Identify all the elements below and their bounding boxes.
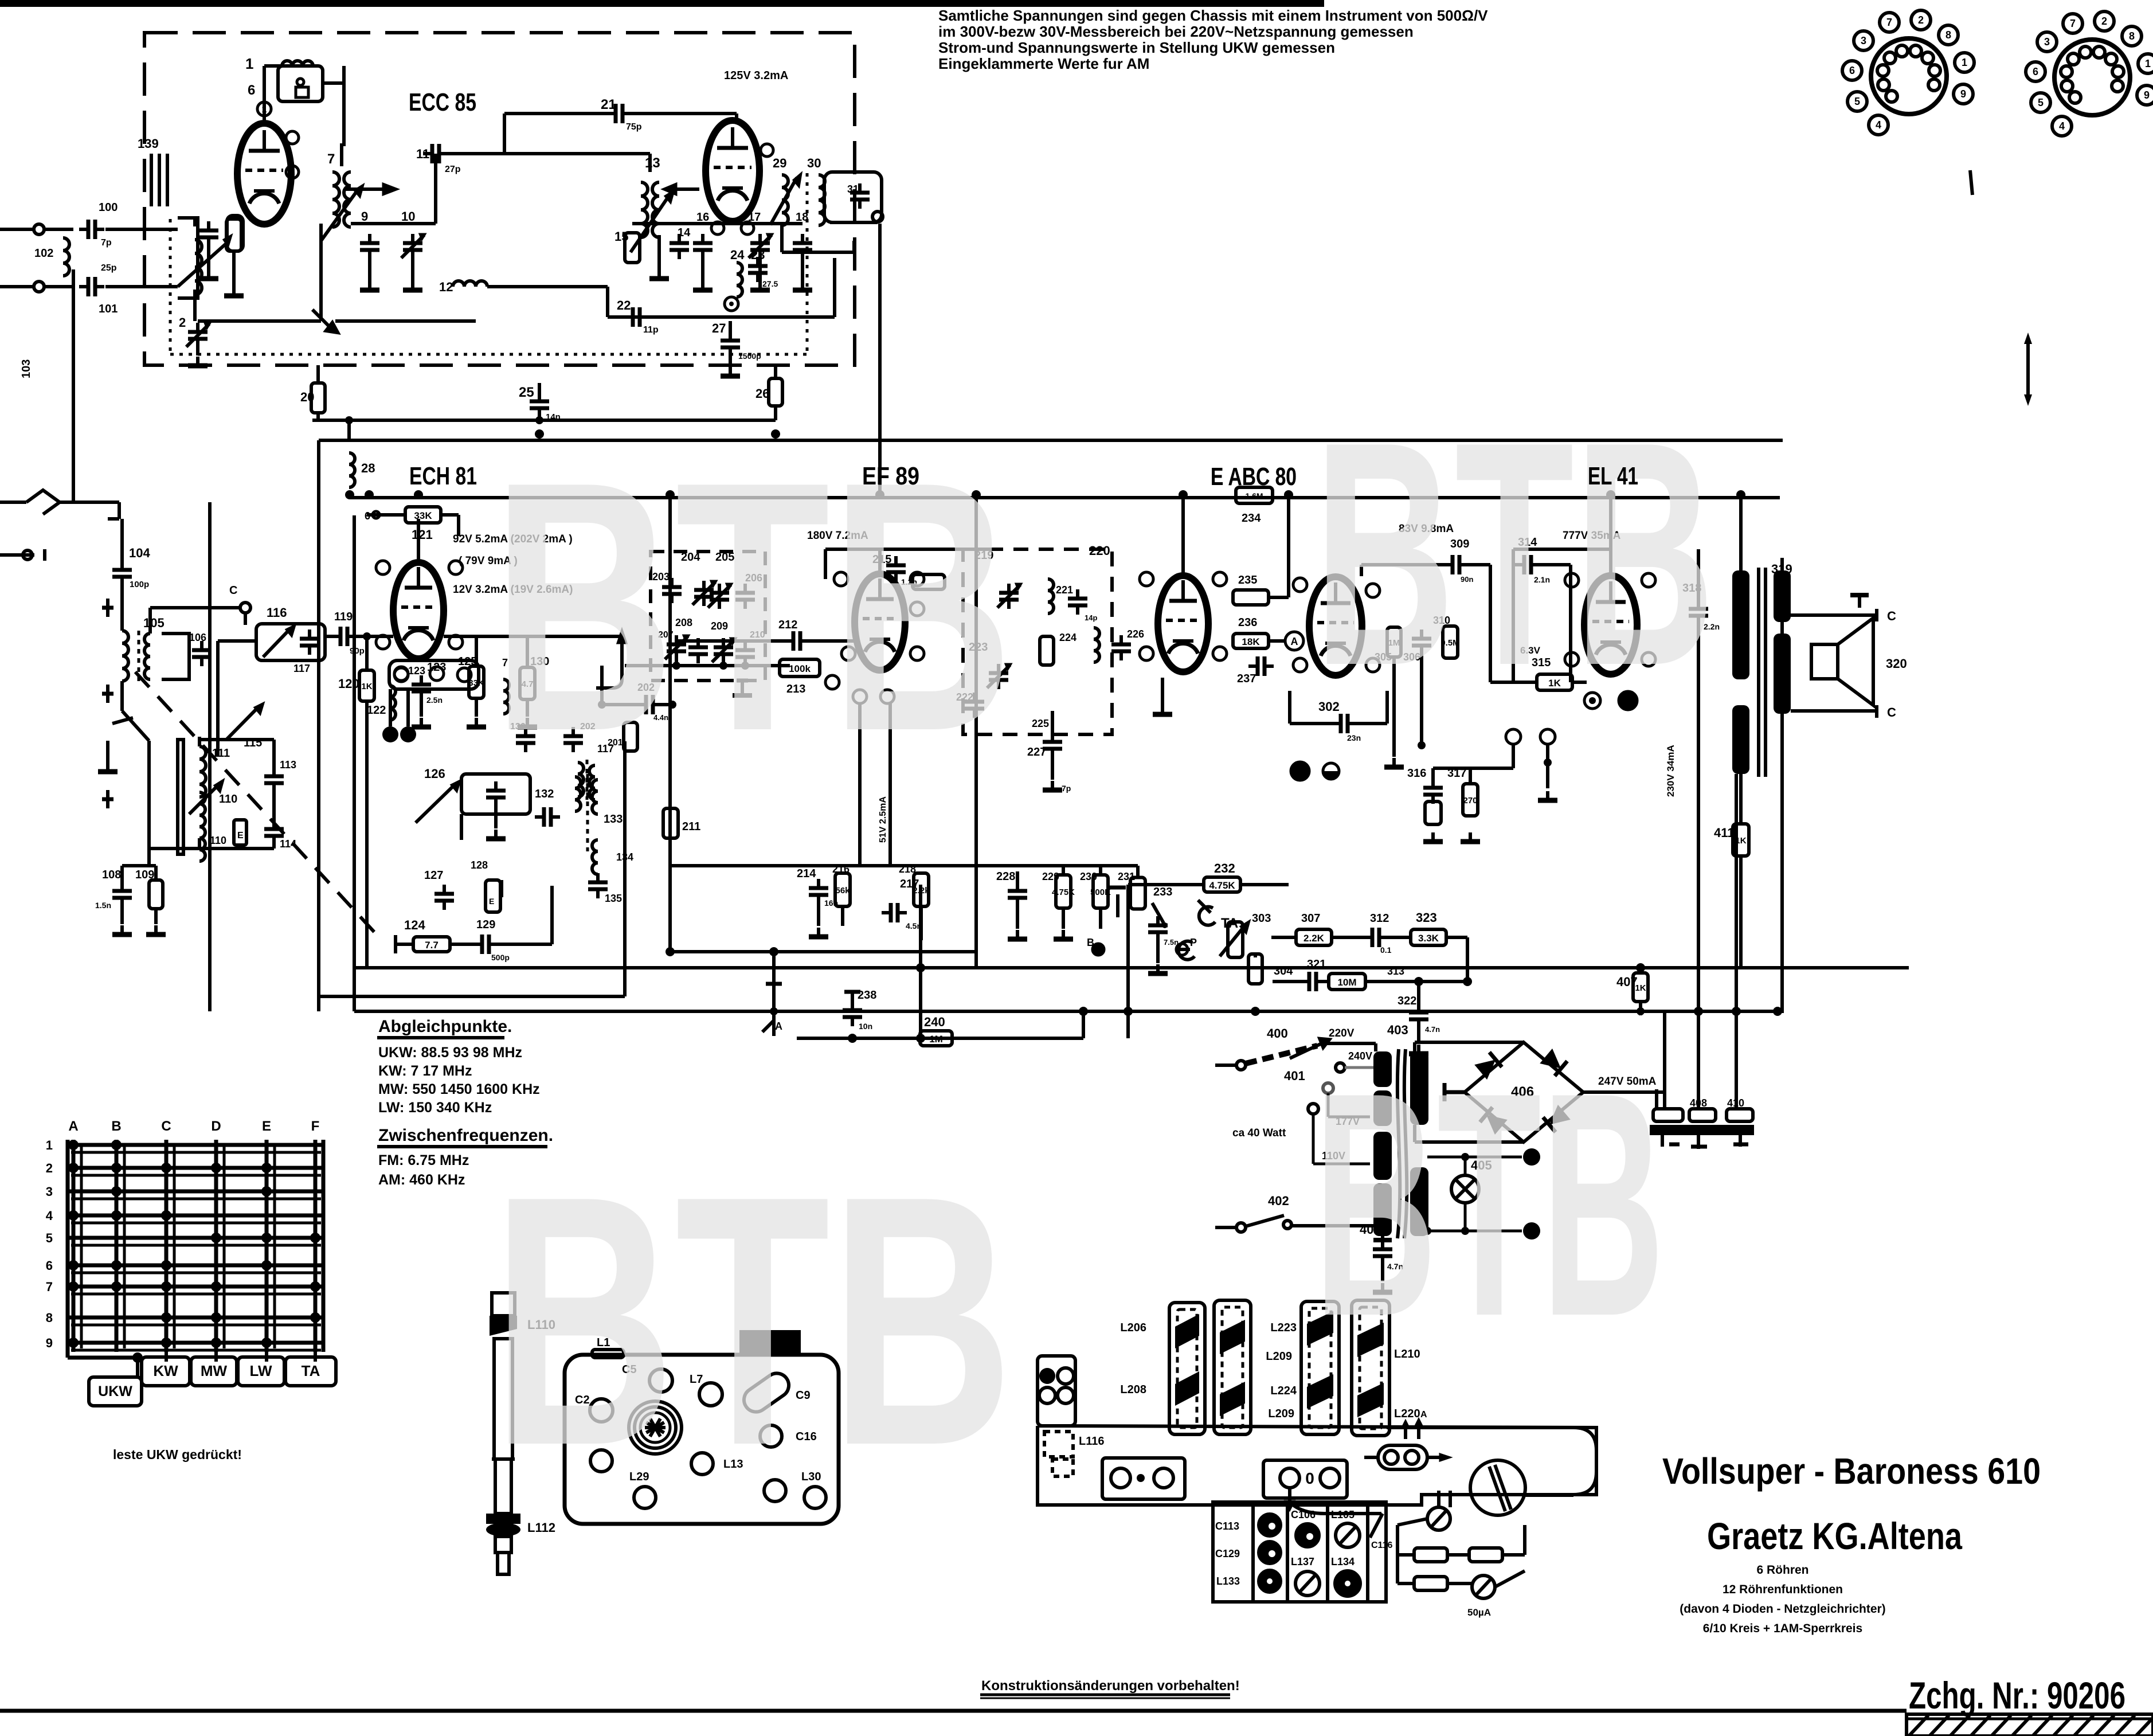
pins filled below 302 — [1291, 762, 1309, 780]
svg-text:6: 6 — [1849, 65, 1855, 76]
TA terminals — [1199, 907, 1215, 925]
svg-text:L209: L209 — [1268, 1407, 1294, 1420]
wire anode ECH81 — [417, 519, 420, 562]
wire — [1254, 954, 1257, 957]
svg-text:10M: 10M — [1337, 977, 1356, 988]
coil 29 — [782, 175, 788, 225]
wire — [1780, 622, 1784, 634]
capacitor 18 — [793, 234, 812, 259]
svg-text:7p: 7p — [1062, 784, 1071, 793]
wire — [1780, 558, 1784, 570]
wire — [457, 515, 460, 536]
svg-text:123: 123 — [408, 665, 425, 677]
svg-text:105: 105 — [143, 616, 165, 630]
svg-text:27.5: 27.5 — [762, 279, 778, 288]
wire — [1490, 681, 1536, 684]
capacitor 106 — [192, 641, 212, 666]
wire frame bottom — [319, 995, 625, 998]
cathode dots ECH81 — [382, 726, 398, 742]
connector two holes — [1378, 1445, 1427, 1469]
wire tap, — [1327, 1093, 1330, 1117]
svg-text:100p: 100p — [130, 580, 149, 589]
wire — [1364, 1456, 1378, 1459]
note text block — [938, 7, 1488, 72]
svg-text:L137: L137 — [1291, 1556, 1314, 1567]
wire — [118, 502, 121, 519]
coil 102 — [63, 238, 69, 276]
wire — [1062, 866, 1065, 875]
small box resistor 5 — [227, 216, 243, 251]
capacitor 228 — [1008, 882, 1027, 907]
svg-text:7: 7 — [46, 1280, 53, 1294]
ground 109 — [146, 925, 166, 935]
svg-text:11: 11 — [416, 147, 429, 161]
trimmer coil 110 — [189, 784, 219, 814]
wire — [44, 285, 73, 288]
wire frame vertical 1090 — [623, 741, 627, 996]
wire IF to EF89 — [676, 639, 751, 643]
bus junction dots — [365, 490, 374, 499]
resistor 230 — [1090, 875, 1111, 908]
svg-text:106: 106 — [189, 632, 206, 643]
bridge left lead — [1445, 1090, 1465, 1094]
wire — [629, 112, 737, 115]
svg-text:4: 4 — [2059, 120, 2065, 132]
svg-text:10n: 10n — [859, 1022, 872, 1031]
pins below EF89 — [853, 690, 867, 703]
svg-text:109: 109 — [135, 869, 154, 881]
pin EF89 e — [910, 647, 924, 660]
wire — [1392, 657, 1396, 757]
svg-text:240: 240 — [924, 1015, 945, 1029]
resistor 216 56k — [835, 873, 850, 906]
hole C2 — [590, 1399, 613, 1422]
terminal 124 — [394, 935, 397, 953]
coil 110b — [199, 827, 205, 861]
antenna terminal lower — [34, 281, 44, 292]
wire — [1269, 639, 1285, 643]
wire — [122, 864, 156, 867]
wire trafo to bus — [1739, 495, 1743, 549]
wire 323 right — [1466, 937, 1469, 982]
pin ECH81 e — [394, 667, 408, 681]
svg-text:234: 234 — [1242, 512, 1261, 525]
trimmer 207 — [665, 635, 689, 660]
capacitor 117 — [300, 630, 319, 655]
svg-text:12 Röhrenfunktionen: 12 Röhrenfunktionen — [1723, 1583, 1843, 1596]
capacitor 210 — [735, 641, 755, 666]
button KW — [142, 1357, 190, 1386]
pin b2 — [1366, 584, 1380, 597]
pin EL41 a — [1565, 573, 1579, 587]
svg-text:128: 128 — [471, 859, 488, 871]
svg-text:7: 7 — [327, 151, 335, 167]
wire to resistor 20 — [316, 365, 320, 383]
wire — [154, 866, 158, 880]
wire — [1413, 1042, 1416, 1051]
wire — [758, 259, 762, 281]
cap 318 — [1697, 596, 1700, 605]
wire — [1639, 968, 1642, 973]
tube socket diagram 2 — [2026, 11, 2153, 136]
hole C5 — [649, 1369, 672, 1392]
resistor 20 2.2k — [311, 383, 325, 413]
wire — [1513, 548, 1611, 551]
wire — [833, 258, 836, 317]
svg-text:C106: C106 — [1291, 1509, 1316, 1520]
svg-text:Samtliche Spannungen sind gege: Samtliche Spannungen sind gegen Chassis … — [938, 7, 1488, 24]
wire bottom cluster — [149, 847, 274, 850]
wire — [1420, 655, 1423, 745]
hole near L30 — [764, 1480, 786, 1502]
wire — [207, 247, 210, 269]
resistor 315 1K — [1537, 674, 1572, 690]
ground 17 — [750, 281, 770, 290]
connector leads — [1427, 1456, 1445, 1459]
wire — [154, 909, 158, 924]
ground 229 — [1054, 930, 1073, 939]
svg-text:ECC 85: ECC 85 — [409, 88, 476, 116]
tap 240V — [1336, 1063, 1345, 1072]
chassis main outline — [1038, 1426, 1596, 1505]
arrow indicator tube2 — [676, 187, 699, 191]
wire — [841, 906, 844, 926]
capacitor 9 — [360, 234, 379, 259]
svg-text:25: 25 — [519, 385, 534, 400]
trimmer capacitor 10 — [401, 234, 425, 259]
ground 125 — [467, 718, 486, 727]
resistor 231 — [1130, 878, 1145, 909]
pin EF89 b — [910, 572, 924, 586]
svg-text:C: C — [229, 584, 237, 597]
svg-text:211: 211 — [682, 820, 700, 833]
svg-text:9: 9 — [1960, 88, 1966, 100]
wire — [722, 663, 725, 666]
wire antenna down — [72, 269, 75, 502]
wire bus 1764 — [354, 1010, 1784, 1013]
wire — [1639, 1002, 1642, 1015]
tuning shaft star — [645, 1426, 666, 1429]
pin wire top — [263, 86, 266, 123]
resistor 125 33K — [468, 666, 484, 698]
svg-text:E: E — [237, 831, 244, 840]
switch arrow 400 — [1290, 1042, 1324, 1058]
wire — [475, 698, 478, 717]
tube EABC80 triode section — [1309, 577, 1362, 675]
ground 227 — [1043, 781, 1062, 790]
band switch matrix — [46, 1119, 323, 1377]
coil 117a — [578, 763, 584, 797]
wire tube2 output down — [878, 224, 882, 495]
resistor 120 1K — [359, 670, 374, 701]
wire x1350 — [772, 952, 776, 1036]
wire — [1464, 1203, 1467, 1231]
wire — [1739, 774, 1743, 824]
wire heater top — [1427, 1156, 1465, 1159]
wire — [120, 681, 124, 711]
wire — [1398, 1582, 1414, 1585]
pin ECH81 a — [376, 561, 390, 574]
svg-text:2: 2 — [179, 315, 186, 330]
coil 122 — [390, 686, 396, 720]
wire 13 primary top — [503, 114, 506, 154]
svg-text:104: 104 — [129, 546, 150, 560]
svg-text:Abgleichpunkte.: Abgleichpunkte. — [378, 1017, 512, 1036]
wire — [751, 639, 786, 643]
capacitor 31 — [850, 183, 870, 209]
svg-text:135: 135 — [605, 893, 622, 904]
wire — [494, 807, 498, 828]
wire — [1156, 941, 1160, 963]
wire — [830, 221, 878, 224]
svg-text:1: 1 — [1962, 57, 1967, 68]
svg-text:228: 228 — [996, 870, 1015, 883]
svg-text:im 300V-bezw 30V-Messbereich b: im 300V-bezw 30V-Messbereich bei 220V~Ne… — [938, 23, 1414, 40]
terminal bar top — [1850, 593, 1869, 597]
trimmer arrow across coil — [178, 241, 229, 287]
svg-text:103: 103 — [20, 359, 33, 378]
svg-text:100: 100 — [99, 201, 118, 214]
hole L30 — [804, 1487, 826, 1508]
transformer 403 secondary LT — [1410, 1167, 1428, 1236]
wire bus 1688 — [354, 966, 1909, 969]
ground 10 — [403, 281, 422, 290]
svg-text:KW: KW — [153, 1362, 178, 1379]
svg-text:L134: L134 — [1331, 1556, 1355, 1567]
svg-text:1.5n: 1.5n — [95, 901, 111, 910]
svg-text:22: 22 — [617, 298, 631, 312]
junction — [1418, 741, 1426, 749]
A B arrows above chassis — [1404, 1426, 1407, 1439]
svg-text:C116: C116 — [1371, 1540, 1392, 1550]
capacitor 11 — [423, 144, 448, 163]
pin 1 1 — [257, 102, 271, 116]
junction — [598, 701, 606, 709]
wire — [105, 285, 178, 288]
svg-text:115: 115 — [244, 737, 262, 749]
bottom rule line — [0, 1709, 1907, 1713]
capacitor 322 — [1409, 1003, 1428, 1029]
wire — [825, 548, 997, 551]
svg-text:8: 8 — [46, 1311, 53, 1325]
svg-text:12: 12 — [439, 280, 453, 294]
terminal stub — [0, 553, 34, 557]
svg-text:15: 15 — [614, 229, 628, 244]
capacitor 135 — [588, 873, 608, 898]
wire — [1288, 691, 1291, 724]
wire out up — [1663, 1012, 1666, 1109]
coil 13b — [652, 182, 659, 237]
svg-text:401: 401 — [1284, 1069, 1305, 1083]
svg-text:124: 124 — [404, 918, 425, 932]
svg-text:4.75K: 4.75K — [1209, 880, 1235, 891]
pin EL41 c — [1565, 652, 1579, 666]
L116 dashed component — [1044, 1432, 1073, 1457]
wire — [316, 413, 320, 420]
wire — [602, 703, 640, 706]
svg-text:229: 229 — [1042, 871, 1059, 882]
antenna terminal upper — [34, 224, 44, 234]
wire top 111 — [199, 738, 274, 741]
coil strip striped 1 — [1214, 1300, 1251, 1434]
ground 130 — [518, 718, 537, 727]
svg-text:232: 232 — [1214, 861, 1235, 875]
wire — [196, 348, 199, 355]
wire — [550, 886, 554, 944]
capacitor 238 — [843, 1001, 862, 1026]
wire EF89 anode — [878, 549, 882, 574]
coil 117b — [589, 765, 595, 800]
wire — [120, 586, 124, 631]
resistor 310 — [1440, 626, 1459, 658]
switch 402 — [1236, 1223, 1246, 1232]
wire — [120, 907, 124, 924]
tube EL41 — [1584, 576, 1637, 674]
wire — [504, 112, 607, 115]
wire — [193, 290, 197, 321]
svg-text:C: C — [1887, 705, 1896, 720]
capacitor 132 — [535, 807, 560, 827]
circled A node — [1285, 632, 1303, 650]
svg-text:MW: MW — [201, 1362, 228, 1379]
speaker terminal bottom — [1875, 705, 1878, 718]
diode 1 — [1474, 1052, 1502, 1080]
svg-text:101: 101 — [99, 303, 118, 315]
svg-text:230V 34mA: 230V 34mA — [1665, 745, 1676, 797]
coil 134 — [592, 840, 598, 874]
capacitor 206 — [735, 584, 755, 609]
chassis right rounded end — [1387, 1428, 1596, 1495]
junction — [719, 662, 727, 670]
svg-text:KW: 7 17: KW: 7 17 MHz — [378, 1063, 472, 1079]
trimmer arrow 29 — [770, 178, 797, 225]
ground 317 — [1461, 832, 1480, 842]
trimmer capacitor 17 — [749, 234, 773, 259]
UKW sub-enclosure dotted — [169, 219, 172, 354]
wire — [1016, 907, 1019, 929]
pins EL41 k — [1506, 729, 1521, 744]
svg-text:307: 307 — [1301, 912, 1320, 925]
svg-text:leste UKW gedrückt!: leste UKW gedrückt! — [113, 1447, 242, 1462]
wire 130 top — [526, 636, 529, 667]
wire — [1323, 980, 1329, 983]
wire — [648, 154, 652, 172]
coil 111 — [199, 746, 206, 797]
wire bottom rail ECC85 — [312, 419, 776, 422]
svg-text:13: 13 — [645, 155, 660, 171]
wire EABC top — [1181, 498, 1185, 576]
svg-text:C: C — [1887, 609, 1896, 623]
wire — [0, 228, 34, 231]
capacitor 21 — [606, 104, 632, 123]
ground — [199, 269, 218, 279]
wire screen EL41 — [1512, 549, 1515, 682]
svg-text:A: A — [1420, 1410, 1427, 1420]
hole L29 — [634, 1487, 656, 1508]
svg-text:323: 323 — [1416, 910, 1437, 925]
pin c2 — [1293, 658, 1307, 672]
svg-text:E: E — [262, 1119, 271, 1134]
svg-text:5: 5 — [1854, 96, 1860, 107]
trimmer top right — [1427, 1507, 1450, 1530]
wire — [496, 943, 552, 946]
svg-text:2: 2 — [2101, 15, 2107, 27]
trimmer 223 — [987, 664, 1011, 689]
trimmer bottom 50uA — [1472, 1575, 1495, 1598]
wire heater mid long — [1735, 774, 1738, 1109]
svg-text:133: 133 — [604, 813, 623, 826]
pin EABC a — [1140, 572, 1153, 586]
wire — [504, 152, 650, 155]
wire — [606, 287, 609, 317]
wire cluster right — [1396, 1525, 1399, 1583]
capacitor 203 — [662, 578, 682, 603]
wire 7 down — [319, 224, 323, 321]
pin a2 — [1293, 578, 1307, 592]
resistor 313 10M — [1329, 973, 1365, 990]
capacitor 127 — [434, 885, 454, 910]
wire — [1415, 1140, 1524, 1144]
wire — [198, 838, 201, 849]
capacitor 215 — [886, 556, 906, 581]
wire — [147, 849, 151, 866]
svg-text:117: 117 — [293, 663, 310, 674]
wire — [1360, 565, 1363, 576]
coil 12 — [453, 281, 487, 287]
wire — [1512, 744, 1515, 768]
wire — [1431, 768, 1435, 779]
capacitor 104 — [112, 561, 132, 586]
wire — [675, 660, 678, 666]
IF can 117 core — [586, 760, 589, 800]
wire — [0, 501, 26, 504]
capacitor 214 — [809, 879, 828, 904]
svg-text:3: 3 — [1861, 35, 1866, 46]
svg-text:1M: 1M — [929, 1034, 943, 1045]
heater terminal bottom — [1523, 1222, 1540, 1240]
wire B+ bus — [350, 496, 1780, 499]
socket plate 1 — [1102, 1458, 1185, 1499]
svg-text:320: 320 — [1886, 656, 1907, 671]
capacitor 321 — [1300, 972, 1325, 991]
electrolytic 316 — [1425, 801, 1441, 824]
svg-text:238: 238 — [858, 989, 876, 1002]
wire — [1502, 1553, 1525, 1557]
svg-text:BTB: BTB — [492, 1123, 1013, 1519]
svg-text:31: 31 — [847, 183, 859, 195]
svg-text:MW: 550 1450 1600 KHz: MW: 550 1450 1600 KHz — [378, 1081, 540, 1097]
resistor 121 33K — [405, 507, 441, 523]
wire — [774, 365, 777, 378]
ECC85 dashed enclosure — [144, 33, 855, 365]
fuse 410 — [1727, 1109, 1753, 1121]
wire — [657, 235, 661, 269]
resistor 26 10k — [769, 378, 782, 406]
svg-text:A: A — [1291, 636, 1298, 647]
junction 25 — [535, 416, 543, 424]
pin circle t2b — [711, 222, 724, 234]
svg-text:27p: 27p — [445, 165, 461, 174]
svg-text:BTB: BTB — [492, 408, 1013, 805]
svg-text:9: 9 — [46, 1336, 53, 1350]
svg-text:Strom-und Spannungswerte in St: Strom-und Spannungswerte in Stellung UKW… — [938, 39, 1335, 56]
svg-text:A: A — [775, 1021, 782, 1032]
resistor in gang — [1040, 636, 1054, 665]
svg-text:9: 9 — [361, 209, 368, 224]
coil 13a — [641, 182, 648, 237]
dipole symbol 103 — [26, 490, 60, 514]
junction — [672, 662, 680, 670]
